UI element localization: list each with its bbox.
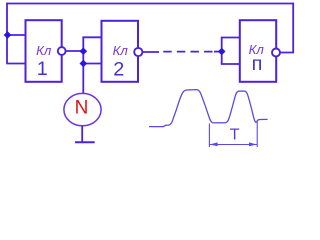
- wire: Kl2 output stub: [139, 51, 160, 53]
- wire: stub into junction of Kln: [214, 51, 222, 53]
- wire: left feedback drop: [6, 3, 8, 64]
- generator N ellipse: [64, 93, 101, 125]
- node junction C (input Kln): [219, 48, 225, 54]
- node junction A (output Kl1): [80, 48, 86, 54]
- output bubble of Kl2: [134, 48, 142, 56]
- wire: vertical between Kl1 and Kl2 down to source N: [82, 37, 84, 93]
- wire: input 2 of Kl2: [83, 63, 101, 65]
- wire: top feedback line: [7, 3, 294, 5]
- switch block Kln: [240, 20, 276, 82]
- wire: dashed continuation between Kl2 and Kln: [163, 51, 217, 53]
- wire: input 1 of Kl1: [7, 34, 26, 36]
- svg-text:1: 1: [37, 58, 48, 80]
- output bubble of Kl1: [58, 47, 66, 55]
- node junction B (to source N): [80, 60, 86, 66]
- svg-text:T: T: [230, 127, 240, 144]
- switch block Kl2: [102, 21, 139, 82]
- output bubble of Kln: [272, 49, 280, 57]
- svg-text:2: 2: [113, 59, 124, 81]
- wire: vertical stub before Kln: [221, 38, 223, 65]
- node junction on left drop: [4, 32, 10, 38]
- wire: Kl1 output to junction: [62, 50, 83, 52]
- svg-text:Кл: Кл: [113, 43, 129, 58]
- arrowhead right: [249, 142, 257, 146]
- svg-text:Кл: Кл: [36, 43, 52, 58]
- dimension extension line right: [256, 122, 258, 148]
- svg-text:п: п: [252, 53, 263, 75]
- arrowhead left: [210, 142, 218, 146]
- ground symbol: [75, 141, 95, 143]
- wire: input 2 of Kln: [221, 63, 240, 65]
- svg-text:N: N: [75, 97, 89, 118]
- wire: right feedback riser: [292, 3, 294, 53]
- wire: input 2 of Kl1: [6, 63, 25, 65]
- dimension extension line left: [208, 124, 210, 148]
- wire: generator N to ground: [81, 126, 83, 143]
- waveform trace: [149, 90, 268, 127]
- wire: input 1 of Kln: [221, 37, 240, 39]
- wire: input 1 of Kl2: [82, 36, 101, 38]
- wire: Kln output to right feedback riser: [276, 52, 294, 54]
- dimension arrow line for T: [210, 144, 257, 146]
- switch block Kl1: [26, 20, 62, 82]
